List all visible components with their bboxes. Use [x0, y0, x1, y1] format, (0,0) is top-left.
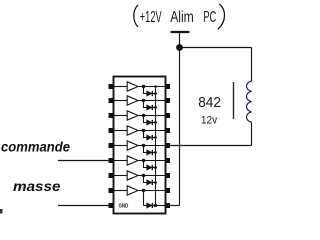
node +12V Alim PC label	[140, 9, 217, 26]
wire input stub channel 3	[114, 115, 128, 117]
wire input stub channel 2	[114, 100, 128, 102]
wire diode drop channel 7	[144, 176, 147, 183]
wire diode 8 to COM pin	[152, 205, 165, 207]
GND pin label	[119, 203, 129, 209]
wire output channel 5	[138, 145, 166, 147]
output pin 5 (right)	[166, 143, 171, 148]
diode D4	[147, 135, 152, 140]
wire diode drop channel 4	[144, 131, 147, 138]
junction dot rail top	[154, 85, 157, 88]
input pin 5 (left)	[109, 143, 114, 148]
+12V power rail tap bar	[171, 31, 190, 33]
junction dot rail channel 4	[154, 136, 157, 139]
wire output channel 7	[138, 175, 166, 177]
wire diode drop channel 1	[144, 87, 147, 94]
junction dot output channel 4	[142, 129, 145, 132]
COM pin 10 (right)	[166, 203, 171, 208]
diode D5	[147, 150, 152, 155]
wire output channel 3	[138, 115, 166, 117]
junction dot rail channel 1	[154, 92, 157, 95]
relay coil 842 winding	[246, 81, 251, 122]
wire +12V vertical from tap down to COM pin row	[179, 32, 181, 206]
svg-text:commande: commande	[1, 138, 70, 154]
svg-text:842: 842	[198, 94, 221, 111]
wire diode to common rail channel 4	[152, 137, 155, 139]
output pin 3 (right)	[166, 113, 171, 118]
output pin 4 (right)	[166, 128, 171, 133]
wire diode drop channel 6	[144, 161, 147, 168]
junction dot output channel 6	[142, 159, 145, 162]
input pin 6 (left)	[109, 158, 114, 163]
junction dot output channel 3	[142, 114, 145, 117]
wire input stub channel 5	[114, 145, 128, 147]
junction dot on +12V line	[176, 44, 183, 51]
wire input stub channel 6	[114, 160, 128, 162]
wire input stub channel 1	[114, 86, 128, 88]
GND pin 9 (left)	[109, 203, 114, 208]
output pin 2 (right)	[166, 98, 171, 103]
wire input stub channel 7	[114, 175, 128, 177]
wire output channel 2	[138, 100, 166, 102]
wire diode to common rail channel 7	[152, 182, 155, 184]
diode D8	[147, 203, 152, 208]
common cathode rail	[155, 87, 157, 206]
input pin 1 (left)	[109, 84, 114, 89]
wire diode to common rail channel 6	[152, 167, 155, 169]
input pin 4 (left)	[109, 128, 114, 133]
right parenthesis of +12V label	[218, 4, 225, 29]
junction dot rail channel 6	[154, 166, 157, 169]
wire diode drop channel 2	[144, 101, 147, 108]
buffer A8	[127, 186, 138, 195]
wire diode drop channel 3	[144, 116, 147, 123]
wire diode to common rail channel 5	[152, 152, 155, 154]
junction dot rail bottom	[154, 204, 157, 207]
junction dot output channel 8	[142, 189, 145, 192]
relay core bar	[233, 82, 235, 119]
diode D2	[147, 105, 152, 110]
wire output channel 4	[138, 130, 166, 132]
buffer A5	[127, 141, 138, 150]
junction dot output channel 7	[142, 174, 145, 177]
junction dot rail channel 5	[154, 151, 157, 154]
wire masse to GND pin	[58, 205, 114, 207]
scan mark left edge	[0, 209, 3, 214]
buffer A4	[127, 126, 138, 135]
diode D7	[147, 180, 152, 185]
wire bottom row to diode 8	[144, 205, 147, 207]
op-amp array IC ULN2803 body	[114, 77, 166, 214]
wire output channel 1	[138, 86, 166, 88]
relay value label 842	[198, 94, 221, 111]
buffer A1	[127, 82, 138, 91]
wire diode to common rail channel 1	[152, 93, 155, 95]
wire diode to common rail channel 3	[152, 122, 155, 124]
wire input stub channel 4	[114, 130, 128, 132]
input pin 7 (left)	[109, 173, 114, 178]
svg-text:PC: PC	[203, 9, 216, 26]
wire relay branch top vertical	[251, 48, 253, 82]
svg-text:12v: 12v	[201, 115, 218, 127]
diode D3	[147, 120, 152, 125]
node commande label	[1, 138, 70, 154]
junction dot rail channel 2	[154, 106, 157, 109]
wire from +12V vertical to COM pin	[170, 205, 180, 207]
input pin 3 (left)	[109, 113, 114, 118]
wire coil bottom vertical	[251, 122, 253, 145]
node masse label	[13, 178, 61, 194]
relay voltage label 12v	[201, 115, 218, 127]
wire diode to common rail channel 2	[152, 107, 155, 109]
input pin 8 (left)	[109, 188, 114, 193]
buffer A3	[127, 111, 138, 120]
diode D6	[147, 165, 152, 170]
output pin 8 (right)	[166, 188, 171, 193]
svg-text:Alim: Alim	[170, 9, 194, 26]
wire commande to input pin 6	[58, 160, 114, 162]
buffer A7	[127, 171, 138, 180]
output pin 1 (right)	[166, 84, 171, 89]
wire output channel 6	[138, 160, 166, 162]
wire input stub channel 8	[114, 190, 128, 192]
wire from junction to relay coil branch	[180, 47, 252, 49]
left parenthesis of +12V label	[134, 5, 138, 27]
svg-text:+12V: +12V	[140, 9, 162, 26]
wire output channel 8	[138, 190, 166, 192]
output pin 6 (right)	[166, 158, 171, 163]
buffer A2	[127, 96, 138, 105]
junction dot rail channel 7	[154, 181, 157, 184]
junction dot output channel 5	[142, 144, 145, 147]
wire diode drop channel 8	[143, 191, 145, 206]
input pin 2 (left)	[109, 98, 114, 103]
junction dot output channel 2	[142, 99, 145, 102]
svg-text:masse: masse	[13, 178, 61, 194]
wire coil return to output pin 5	[170, 145, 252, 147]
junction dot rail channel 3	[154, 121, 157, 124]
output pin 7 (right)	[166, 173, 171, 178]
svg-text:GND: GND	[119, 203, 129, 209]
buffer A6	[127, 156, 138, 165]
wire diode drop channel 5	[144, 146, 147, 153]
diode D1	[147, 91, 152, 96]
junction dot output channel 1	[142, 85, 145, 88]
